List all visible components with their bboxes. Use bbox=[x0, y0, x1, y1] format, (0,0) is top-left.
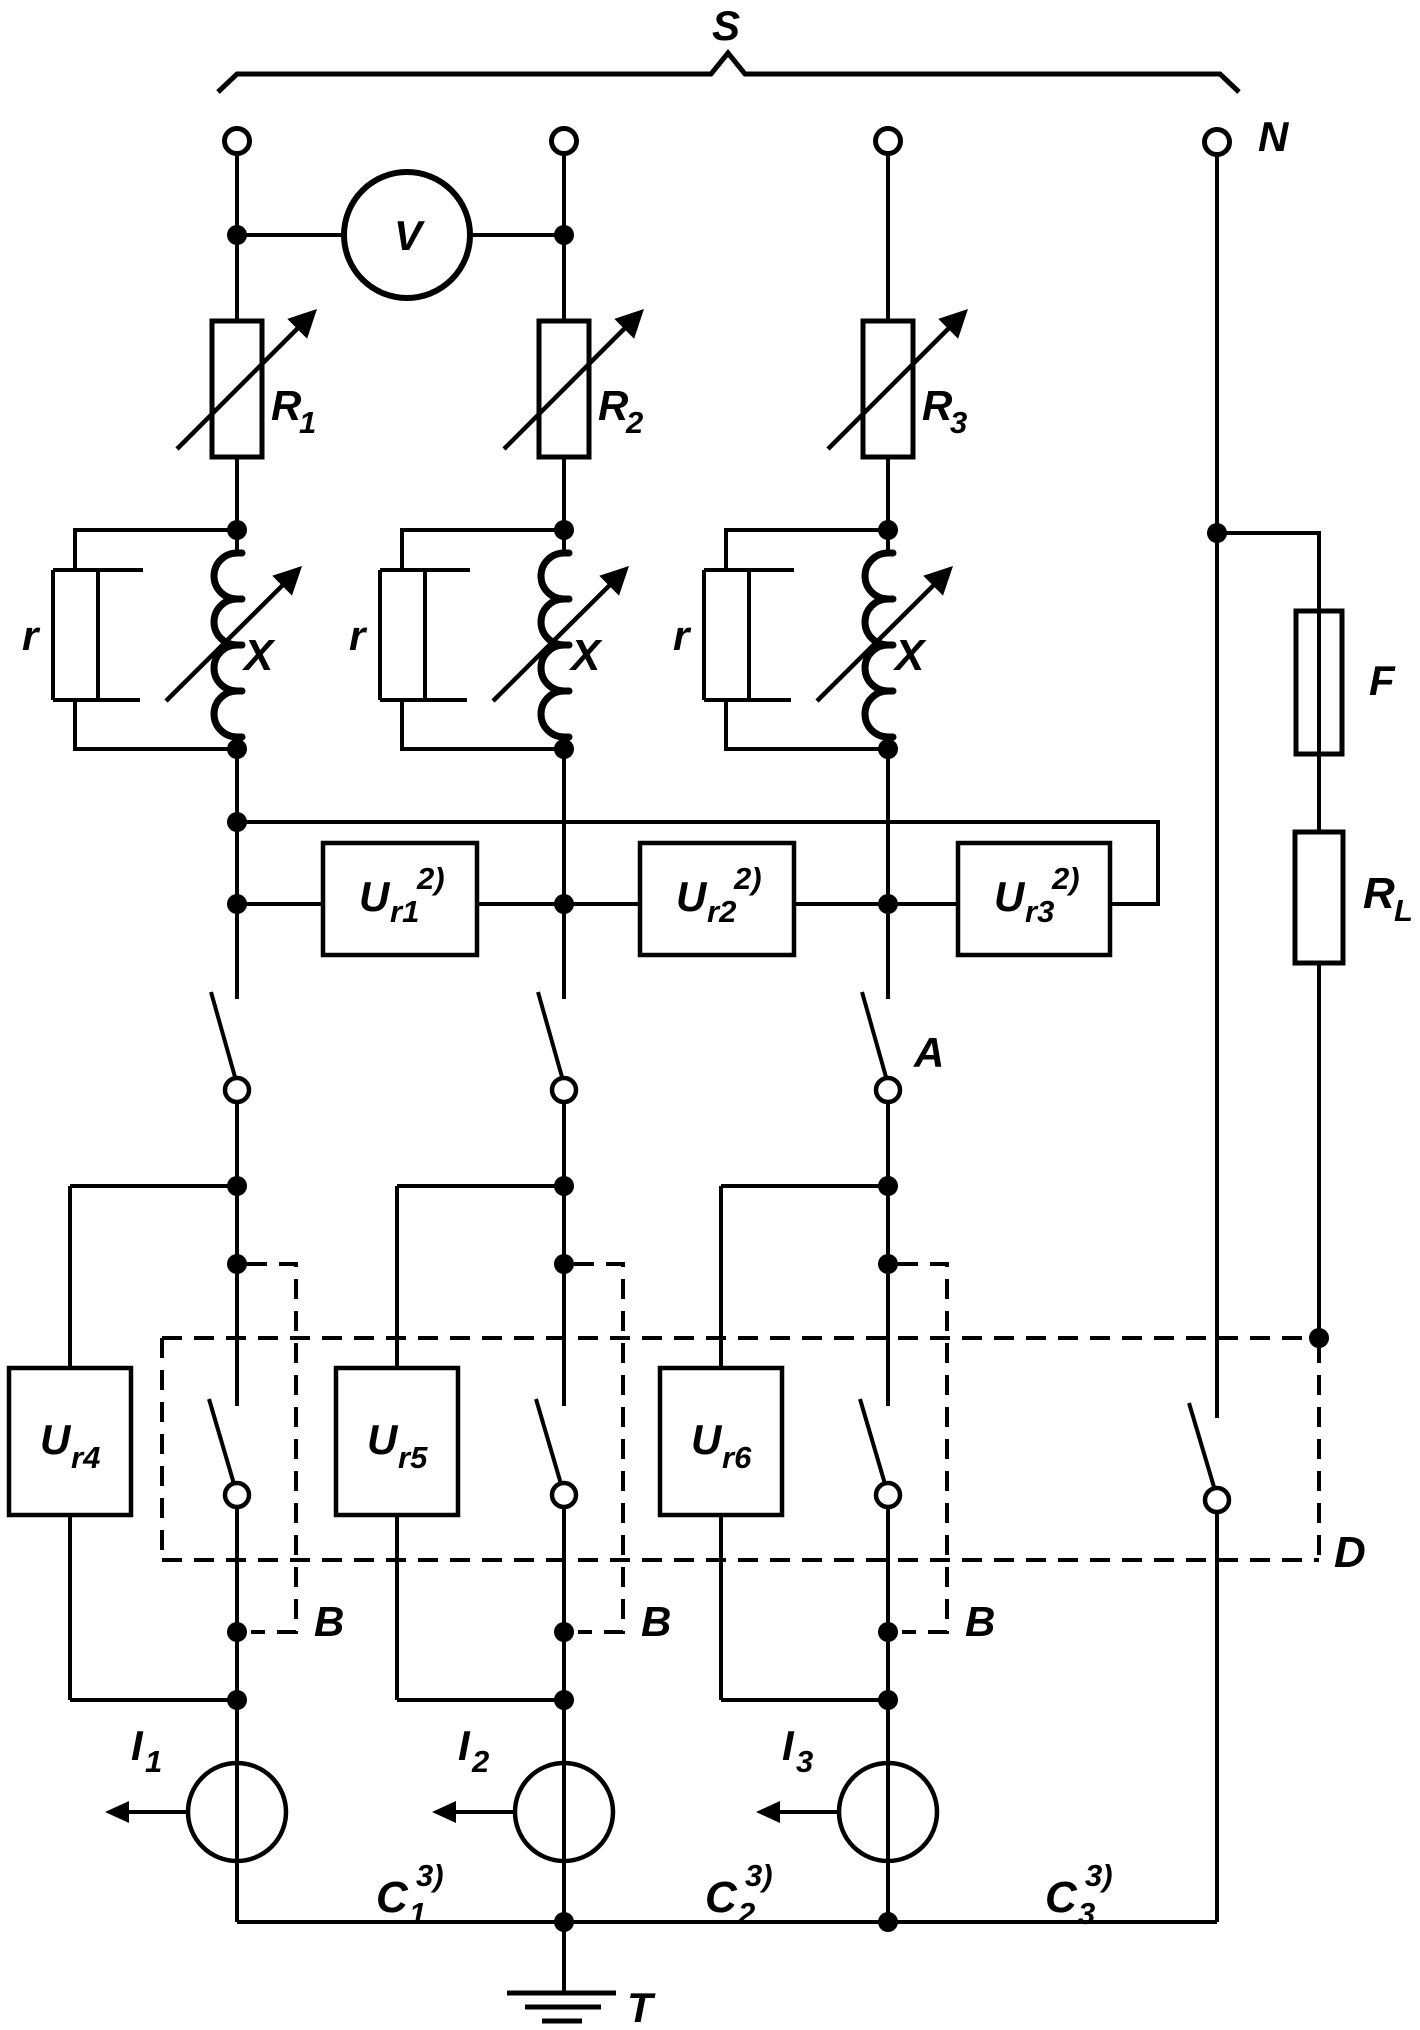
svg-text:B: B bbox=[965, 1598, 995, 1645]
svg-text:r3: r3 bbox=[1025, 894, 1054, 929]
svg-text:C: C bbox=[1045, 1873, 1078, 1922]
svg-text:X: X bbox=[892, 631, 927, 680]
svg-text:B: B bbox=[641, 1598, 671, 1645]
svg-text:B: B bbox=[314, 1598, 344, 1645]
svg-text:1: 1 bbox=[409, 1896, 426, 1931]
svg-text:2): 2) bbox=[1051, 861, 1080, 896]
svg-text:3: 3 bbox=[796, 1744, 813, 1779]
svg-text:F: F bbox=[1369, 657, 1396, 704]
svg-text:1: 1 bbox=[145, 1744, 162, 1779]
svg-text:U: U bbox=[676, 873, 708, 920]
svg-text:3): 3) bbox=[1085, 1858, 1113, 1893]
svg-text:X: X bbox=[568, 631, 603, 680]
svg-text:3: 3 bbox=[950, 405, 967, 440]
svg-text:R: R bbox=[922, 382, 953, 429]
svg-text:r5: r5 bbox=[398, 1440, 428, 1475]
svg-text:L: L bbox=[1394, 893, 1413, 928]
svg-text:C: C bbox=[376, 1873, 409, 1922]
svg-text:V: V bbox=[394, 212, 425, 259]
svg-text:r2: r2 bbox=[707, 894, 736, 929]
svg-text:2): 2) bbox=[416, 861, 445, 896]
svg-text:U: U bbox=[359, 873, 391, 920]
svg-text:X: X bbox=[241, 631, 276, 680]
svg-text:2: 2 bbox=[471, 1744, 489, 1779]
svg-text:2: 2 bbox=[737, 1896, 755, 1931]
svg-text:N: N bbox=[1258, 113, 1290, 160]
svg-text:U: U bbox=[367, 1416, 399, 1463]
svg-text:T: T bbox=[627, 1984, 656, 2030]
svg-text:r: r bbox=[349, 612, 368, 659]
svg-text:3: 3 bbox=[1078, 1896, 1095, 1931]
svg-text:I: I bbox=[782, 1722, 795, 1769]
svg-text:D: D bbox=[1334, 1528, 1366, 1577]
svg-text:r: r bbox=[22, 612, 41, 659]
svg-text:r: r bbox=[673, 612, 692, 659]
svg-text:r4: r4 bbox=[71, 1440, 100, 1475]
svg-text:R: R bbox=[1363, 869, 1395, 918]
svg-text:A: A bbox=[913, 1029, 944, 1076]
svg-text:C: C bbox=[705, 1873, 738, 1922]
svg-text:I: I bbox=[458, 1722, 471, 1769]
svg-text:I: I bbox=[131, 1722, 144, 1769]
svg-text:3): 3) bbox=[416, 1858, 444, 1893]
svg-text:R: R bbox=[271, 382, 302, 429]
svg-text:U: U bbox=[40, 1416, 72, 1463]
svg-text:r1: r1 bbox=[390, 894, 419, 929]
svg-text:2): 2) bbox=[733, 861, 762, 896]
svg-text:S: S bbox=[712, 2, 740, 49]
svg-text:r6: r6 bbox=[722, 1440, 752, 1475]
svg-text:U: U bbox=[994, 873, 1026, 920]
svg-text:3): 3) bbox=[745, 1858, 773, 1893]
svg-text:U: U bbox=[691, 1416, 723, 1463]
svg-text:2: 2 bbox=[625, 405, 643, 440]
svg-text:1: 1 bbox=[299, 405, 316, 440]
svg-text:R: R bbox=[598, 382, 629, 429]
